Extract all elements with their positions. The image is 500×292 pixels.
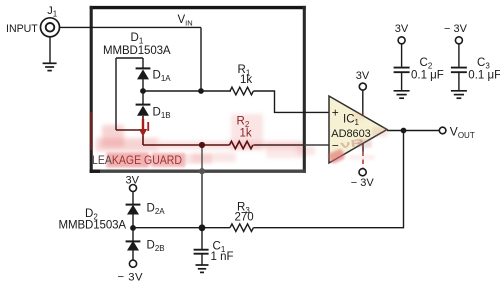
svg-text:MMBD1503A: MMBD1503A xyxy=(103,45,171,57)
svg-text:AD8603: AD8603 xyxy=(331,128,370,140)
svg-text:D2B: D2B xyxy=(147,240,165,254)
svg-text:D2A: D2A xyxy=(147,203,166,217)
svg-text:3V: 3V xyxy=(356,70,370,82)
svg-text:MMBD1503A: MMBD1503A xyxy=(59,220,127,232)
svg-text:3V: 3V xyxy=(126,175,140,187)
svg-text:VIN: VIN xyxy=(178,14,193,27)
svg-text:3V: 3V xyxy=(395,23,409,35)
svg-text:D1A: D1A xyxy=(153,70,172,84)
svg-text:VOUT: VOUT xyxy=(450,125,475,140)
svg-text:− 3V: − 3V xyxy=(118,272,144,284)
svg-text:I: I xyxy=(147,120,150,134)
svg-text:INPUT: INPUT xyxy=(6,23,38,35)
svg-text:− 3V: − 3V xyxy=(444,23,468,35)
svg-text:0.1 μF: 0.1 μF xyxy=(411,69,444,81)
svg-text:0.1 μF: 0.1 μF xyxy=(468,69,500,81)
svg-text:1 nF: 1 nF xyxy=(211,251,234,263)
svg-text:+: + xyxy=(332,106,339,120)
svg-text:D1: D1 xyxy=(131,32,144,46)
svg-text:−: − xyxy=(332,139,339,153)
svg-text:1k: 1k xyxy=(240,128,252,140)
svg-text:D1B: D1B xyxy=(153,107,171,121)
svg-text:1k: 1k xyxy=(240,74,252,86)
svg-text:LEAKAGE GUARD: LEAKAGE GUARD xyxy=(92,153,182,167)
svg-text:− 3V: − 3V xyxy=(351,177,375,189)
svg-text:J1: J1 xyxy=(47,5,58,19)
svg-text:270: 270 xyxy=(235,212,254,224)
